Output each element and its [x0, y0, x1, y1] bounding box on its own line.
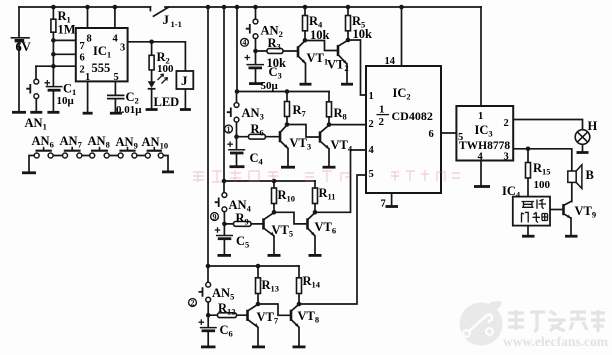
svg-text:5: 5 — [458, 132, 463, 143]
wire VT6 collector to IC2 pin4 — [315, 150, 366, 212]
wire node to R9 and VT5 base — [224, 223, 263, 225]
capacitor C1 electrolytic — [45, 80, 63, 90]
svg-text:R14: R14 — [303, 274, 321, 290]
svg-text:J1-1: J1-1 — [163, 12, 182, 29]
svg-text:4: 4 — [369, 145, 375, 156]
switch J1-1 contact — [150, 7, 168, 16]
wire VT1 collector to VT2 base — [305, 41, 338, 51]
svg-text:R10: R10 — [278, 188, 296, 204]
wire stage4 rail — [208, 265, 299, 267]
wire R14 stubs — [298, 266, 300, 304]
svg-text:AN6: AN6 — [32, 134, 54, 150]
svg-text:R7: R7 — [293, 103, 307, 119]
capacitor C4 electrolytic — [227, 141, 245, 153]
resistor R14 — [297, 278, 302, 294]
node 4 circled — [241, 38, 249, 47]
wire IC1 pin8 stub — [87, 7, 89, 28]
wire AN1 branch — [35, 66, 37, 111]
relay coil J box — [176, 71, 193, 89]
svg-text:7: 7 — [80, 41, 85, 52]
svg-text:AN1: AN1 — [25, 116, 47, 132]
svg-text:14: 14 — [385, 56, 396, 67]
IC2 CD4082 box — [366, 66, 441, 193]
svg-text:LED: LED — [154, 95, 180, 109]
svg-text:CD4082: CD4082 — [392, 109, 433, 123]
wire switch row links — [53, 155, 145, 157]
ground switch row left — [22, 171, 36, 174]
svg-text:VT3: VT3 — [290, 136, 312, 152]
junction dot pin3 R2 — [149, 40, 154, 45]
wire VT5 emitter to ground — [273, 236, 275, 255]
ground C5 — [218, 254, 232, 257]
svg-text:5: 5 — [369, 169, 374, 180]
svg-text:1: 1 — [478, 111, 483, 122]
svg-text:www.elecfans.com: www.elecfans.com — [503, 334, 609, 349]
wire IC4 to VT9 base — [550, 209, 564, 211]
wire IC2 pin14 stub — [401, 7, 403, 66]
svg-text:C6: C6 — [220, 323, 233, 339]
svg-text:4: 4 — [113, 34, 119, 45]
ground VT4 — [323, 166, 336, 169]
junction dot AN5 node — [206, 313, 211, 318]
resistor R8 — [327, 102, 332, 117]
resistor R7 — [285, 102, 290, 117]
wire IC1 pin4 stub — [114, 7, 116, 28]
wire R5 stubs — [347, 7, 349, 40]
watermark red text row — [193, 170, 460, 182]
wire AN2 to node — [255, 39, 257, 52]
wire node to R6 and VT3 base — [237, 136, 281, 138]
IC3 TWH8778 box — [456, 106, 513, 161]
svg-text:VT7: VT7 — [257, 310, 279, 326]
svg-text:100: 100 — [534, 179, 551, 191]
wire bus C x=237 — [236, 7, 239, 103]
LED diode — [148, 74, 168, 89]
wire AN3 to node — [236, 122, 238, 137]
svg-text:10μ: 10μ — [57, 95, 75, 107]
transistor VT2 — [338, 40, 348, 64]
resistor R3 — [267, 49, 283, 54]
svg-text:R8: R8 — [334, 106, 347, 122]
pushbutton AN8 — [90, 147, 110, 158]
pin labels IC2 — [369, 56, 434, 210]
resistor R6 — [249, 134, 266, 139]
wire R10 stubs — [273, 181, 275, 212]
svg-text:R11: R11 — [319, 186, 336, 202]
wire VT7 collector to VT8 base — [258, 304, 291, 315]
svg-text:10k: 10k — [353, 27, 373, 41]
wire VT6 emitter to ground — [314, 236, 316, 255]
wire VT3 collector to VT4 base — [287, 125, 320, 138]
ground VT6 — [309, 254, 322, 257]
ground VT2 — [341, 83, 353, 86]
wire IC2 pin7 stub — [391, 193, 393, 206]
wire R1 top — [52, 7, 54, 19]
svg-text:2: 2 — [369, 119, 374, 130]
ground C4 — [230, 165, 245, 168]
ground IC1 pin1 — [83, 112, 93, 115]
ground battery rail — [12, 111, 26, 114]
capacitor C2 — [107, 95, 125, 98]
wire IC1 pin3 to relay J — [128, 42, 186, 71]
svg-text:6: 6 — [429, 129, 434, 140]
junction dots R1 line — [51, 38, 56, 43]
wire IC3 pin2 to lamp — [513, 120, 582, 130]
junction dots AN2 node — [253, 49, 258, 54]
label 1/2 fraction — [377, 104, 390, 129]
wire AN4 to node — [223, 212, 225, 224]
wire VT8 collector to IC2 pin5 — [299, 175, 366, 304]
ground C3 — [249, 82, 263, 85]
svg-text:9: 9 — [213, 212, 217, 221]
svg-text:VT2: VT2 — [327, 58, 349, 74]
ground VT3 — [281, 166, 295, 169]
IC1 555 box — [76, 28, 128, 81]
transistor VT9 — [564, 201, 572, 218]
wire IC1 pin1 stub — [87, 81, 89, 112]
wire C1 to ground — [52, 91, 54, 112]
svg-text:R6: R6 — [251, 122, 264, 138]
wire switch row left terminal — [29, 156, 34, 173]
svg-text:R13: R13 — [262, 278, 280, 294]
ground VT7 — [252, 345, 265, 348]
svg-text:R15: R15 — [533, 161, 551, 177]
svg-text:6: 6 — [80, 53, 85, 64]
junction dots top rail — [51, 5, 56, 10]
speaker B — [568, 165, 582, 189]
junction dots stage4 — [206, 264, 211, 269]
svg-text:100: 100 — [157, 63, 174, 75]
wire R4 stubs — [304, 7, 306, 40]
svg-text:B: B — [586, 168, 594, 182]
wire stage3 rail — [224, 180, 315, 182]
resistor R15 — [526, 163, 531, 179]
wire IC3 pin1 from rail — [480, 7, 482, 106]
svg-text:0.01μ: 0.01μ — [116, 104, 142, 116]
watermark chinese gray text — [508, 310, 605, 332]
svg-text:VT5: VT5 — [272, 223, 294, 239]
node 2 circled — [189, 298, 197, 307]
resistor R4 — [303, 16, 308, 31]
ground VT8 — [293, 345, 306, 348]
ground lamp — [577, 151, 589, 154]
junction dots stage1 — [303, 38, 308, 43]
ground VT5 — [268, 254, 281, 257]
svg-text:H: H — [588, 119, 598, 133]
ground LED — [146, 108, 158, 111]
svg-text:4: 4 — [243, 38, 247, 47]
lamp H — [575, 130, 590, 145]
ground IC4 — [522, 235, 535, 238]
resistor R5 — [346, 16, 351, 31]
wire R13 stubs — [257, 266, 259, 304]
wire stage2 rail — [237, 91, 329, 93]
wire IC4 bottom stub — [527, 226, 529, 236]
ground AN1 — [30, 111, 42, 114]
ground switch row right — [162, 170, 174, 173]
svg-text:VT6: VT6 — [315, 220, 337, 236]
wire VT1 emitter to ground — [305, 64, 307, 84]
wire VT4 collector to IC2 pin2 — [329, 124, 366, 126]
junction dot AN4 node — [222, 222, 227, 227]
pushbutton AN7 — [63, 147, 82, 158]
wire top supply rail right segment — [165, 6, 481, 8]
svg-text:2: 2 — [191, 298, 195, 307]
svg-text:2: 2 — [80, 65, 85, 76]
pushbutton AN5 — [199, 282, 211, 302]
wire speaker to VT9 collector — [571, 183, 573, 202]
wire top supply rail left segment — [19, 6, 150, 8]
svg-text:AN5: AN5 — [212, 286, 234, 302]
svg-text:1: 1 — [227, 125, 231, 134]
resistor R2 — [149, 55, 154, 70]
wire VT4 emitter to ground — [328, 149, 330, 167]
wire R1 bottom to C1 — [52, 32, 54, 86]
pushbutton AN9 — [118, 147, 137, 158]
ground IC2 pin7 — [386, 205, 399, 208]
wire AN2 drop — [255, 7, 257, 19]
ground IC1 pin5 — [110, 112, 122, 115]
wire lamp to ground — [582, 144, 584, 152]
svg-text:J: J — [181, 73, 188, 88]
transistor VT7 — [248, 304, 259, 327]
svg-text:C5: C5 — [236, 234, 249, 250]
wire node to R12 and VT7 base — [208, 314, 247, 316]
svg-text:IC4: IC4 — [502, 184, 521, 200]
ground VT9 — [565, 235, 578, 238]
wire C6 chain — [207, 315, 209, 346]
wire AN5 to node — [207, 302, 209, 315]
wire R8 stubs — [328, 92, 330, 125]
svg-text:AN3: AN3 — [242, 106, 264, 122]
pushbutton AN6 — [34, 147, 53, 158]
svg-text:AN9: AN9 — [116, 135, 138, 151]
wire IC1 pin5 stub through C2 — [114, 81, 116, 112]
wire VT5 collector to VT6 base — [274, 212, 308, 224]
svg-text:5: 5 — [114, 72, 119, 83]
wire VT7 emitter to ground — [257, 327, 259, 346]
wire C4 chain — [236, 137, 238, 166]
pin labels IC1 — [80, 34, 126, 84]
ground C6 — [201, 345, 216, 348]
svg-text:50μ: 50μ — [261, 80, 279, 92]
junction dots stage3 — [222, 179, 227, 184]
svg-text:AN7: AN7 — [60, 134, 83, 150]
resistor R1 — [51, 19, 56, 32]
transistor VT8 — [291, 304, 299, 327]
wire R2 LED chain — [151, 42, 153, 109]
svg-text:AN8: AN8 — [88, 134, 110, 150]
ground IC3 pin4 — [474, 185, 490, 188]
pushbutton AN4 — [215, 193, 227, 212]
ground VT1 — [300, 83, 312, 86]
wire left battery rail — [18, 7, 20, 112]
wire R7 stubs — [286, 92, 288, 125]
svg-text:AN10: AN10 — [142, 135, 169, 151]
wire R11 stubs — [314, 181, 316, 212]
svg-text:1: 1 — [85, 72, 90, 83]
transistor VT5 — [264, 213, 275, 237]
transistor VT1 — [298, 41, 306, 64]
wire bus A x=208 — [207, 7, 209, 282]
svg-text:1M: 1M — [58, 23, 76, 37]
svg-text:10k: 10k — [310, 28, 330, 42]
transistor VT6 — [308, 213, 316, 237]
label music doorbell chinese — [522, 199, 548, 222]
wire VT2 collector to IC2 pin1 — [348, 40, 366, 95]
svg-text:TWH8778: TWH8778 — [459, 140, 510, 152]
svg-text:2: 2 — [379, 116, 385, 128]
watermark logo circle — [460, 301, 503, 345]
junction dot R15 — [526, 147, 531, 152]
wire pin7 of IC1 — [53, 39, 75, 41]
svg-text:3: 3 — [504, 152, 509, 163]
svg-text:1: 1 — [369, 91, 374, 102]
wire pin2 of IC1 — [36, 65, 76, 67]
svg-text:VT4: VT4 — [331, 138, 353, 154]
wire C5 chain — [223, 224, 225, 255]
wire VT8 emitter to ground — [298, 327, 300, 346]
transistor VT3 — [280, 125, 288, 149]
svg-text:VT1: VT1 — [307, 51, 329, 67]
junction dot AN3 node — [234, 134, 239, 139]
wire pin6 of IC1 — [53, 53, 75, 55]
capacitor C5 electrolytic — [215, 227, 233, 239]
pin labels IC3 — [458, 111, 509, 163]
transistor VT4 — [320, 125, 329, 149]
wire VT2 emitter to ground — [346, 64, 348, 84]
wire R15 stubs — [527, 149, 529, 197]
capacitor C3 electrolytic — [245, 55, 265, 68]
node 9 circled — [211, 212, 219, 221]
pushbutton AN3 — [227, 103, 239, 123]
svg-text:VT8: VT8 — [298, 309, 320, 325]
battery 6V — [11, 38, 30, 41]
wire J box to ground — [184, 89, 186, 109]
svg-text:1: 1 — [379, 104, 385, 116]
node 1 circled — [225, 125, 233, 134]
svg-text:6V: 6V — [16, 40, 31, 54]
resistor R10 — [272, 188, 277, 204]
svg-text:C4: C4 — [250, 151, 264, 167]
svg-text:3: 3 — [120, 43, 125, 54]
wire switch row right terminal — [163, 156, 168, 172]
ground relay J — [180, 108, 191, 111]
pushbutton AN10 — [145, 147, 163, 158]
wire IC3 pin3 to speaker — [513, 149, 572, 171]
pushbutton AN2 — [246, 19, 258, 38]
svg-text:VT9: VT9 — [575, 204, 597, 220]
IC4 music doorbell box — [513, 197, 550, 226]
svg-text:555: 555 — [92, 61, 111, 75]
wire IC3 pin4 to ground — [480, 161, 482, 187]
wire bus B x=224 — [223, 7, 225, 193]
resistor R11 — [313, 188, 318, 204]
wire IC2 pin6 to IC3 pin5 — [441, 132, 456, 134]
svg-text:4: 4 — [478, 152, 484, 163]
capacitor C6 electrolytic — [199, 319, 217, 330]
pushbutton AN1 — [26, 79, 38, 98]
resistor R9 — [234, 222, 252, 227]
svg-text:7: 7 — [381, 199, 386, 210]
wire C3 chain — [255, 51, 257, 83]
wire VT3 emitter to ground — [287, 149, 289, 167]
wire node to R3 and VT1 base — [256, 50, 299, 52]
junction dots stage2 — [235, 89, 240, 94]
resistor R13 — [256, 278, 261, 294]
resistor R12 — [218, 313, 237, 318]
svg-text:8: 8 — [87, 34, 92, 45]
svg-text:2: 2 — [504, 118, 509, 129]
svg-text:R12: R12 — [218, 301, 236, 317]
ground C1 — [47, 111, 59, 114]
wire VT9 emitter to ground — [570, 218, 572, 236]
